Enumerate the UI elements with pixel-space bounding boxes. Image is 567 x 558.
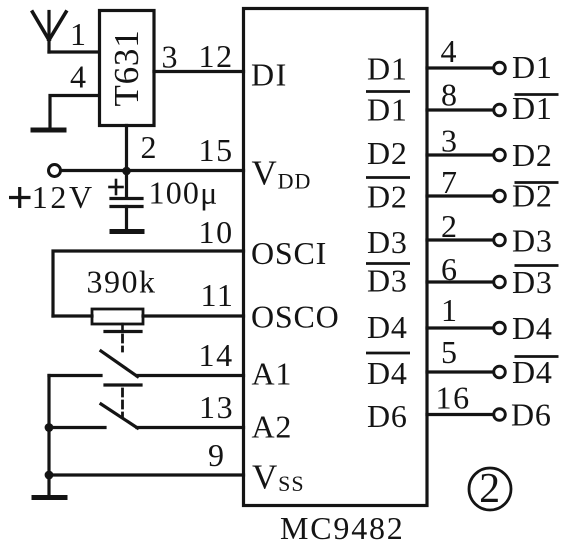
svg-text:A2: A2 xyxy=(252,409,293,445)
terminal circle D4bar xyxy=(494,366,506,378)
svg-text:100μ: 100μ xyxy=(149,175,219,211)
svg-text:4: 4 xyxy=(441,33,458,69)
svg-text:13: 13 xyxy=(199,389,234,425)
svg-text:D2: D2 xyxy=(512,137,553,173)
wire D1bar pin8 out xyxy=(427,108,494,111)
svg-text:1: 1 xyxy=(441,292,458,328)
svg-text:D3: D3 xyxy=(512,264,553,300)
resistor R1 390k body xyxy=(92,309,143,324)
svg-text:D1: D1 xyxy=(367,51,408,87)
svg-text:DI: DI xyxy=(251,57,288,93)
svg-text:390k: 390k xyxy=(87,264,157,300)
svg-text:7: 7 xyxy=(441,164,458,200)
svg-text:T631: T631 xyxy=(107,29,146,106)
wire D2 pin3 out xyxy=(427,153,494,156)
terminal circle D3bar xyxy=(494,276,506,288)
svg-text:MC9482: MC9482 xyxy=(280,510,405,546)
mechanical link dashed line A xyxy=(121,335,124,351)
svg-text:16: 16 xyxy=(436,380,471,416)
wire D6 pin16 out xyxy=(427,413,494,416)
svg-text:D4: D4 xyxy=(512,354,553,390)
terminal circle D2bar xyxy=(494,190,506,202)
terminal circle D2 xyxy=(494,149,506,161)
wire T631 pin3 to DI xyxy=(154,70,244,73)
svg-text:D6: D6 xyxy=(367,398,408,434)
overline inside D4bar xyxy=(366,352,410,355)
overline outside D4bar xyxy=(515,355,559,358)
receiver module T631 xyxy=(100,11,155,126)
svg-text:D6: D6 xyxy=(511,397,552,433)
wire +12V to VDD pin15 xyxy=(61,169,244,172)
svg-text:10: 10 xyxy=(199,214,234,250)
svg-text:8: 8 xyxy=(441,77,458,113)
svg-text:3: 3 xyxy=(162,39,179,75)
svg-text:D2: D2 xyxy=(367,135,408,171)
wire OSCI loop xyxy=(53,251,244,316)
mechanical link bar A xyxy=(105,330,141,333)
ground bar (T631 pin4) xyxy=(33,128,64,133)
wire VSS pin9 xyxy=(49,473,244,476)
svg-text:D4: D4 xyxy=(367,355,408,391)
svg-text:14: 14 xyxy=(199,337,234,373)
svg-text:D4: D4 xyxy=(512,310,553,346)
terminal circle D4 xyxy=(494,322,506,334)
switch S1 arm xyxy=(101,351,138,377)
svg-text:11: 11 xyxy=(201,277,235,313)
svg-text:2: 2 xyxy=(141,129,158,165)
capacitor polarity plus sign xyxy=(110,180,123,194)
wire D2bar pin7 out xyxy=(427,194,494,197)
capacitor C1 100u plates xyxy=(111,199,142,232)
+12V terminal circle xyxy=(49,165,61,177)
svg-text:D1: D1 xyxy=(512,49,553,85)
svg-text:12V: 12V xyxy=(32,179,95,215)
IC U1 MC9482 body xyxy=(244,9,428,506)
figure number circle xyxy=(469,468,511,510)
svg-text:D4: D4 xyxy=(367,309,408,345)
wire antenna to T631 pin1 xyxy=(49,50,99,53)
svg-text:D2: D2 xyxy=(367,179,408,215)
ground rail vertical xyxy=(47,376,50,496)
overline outside D3bar xyxy=(515,264,559,267)
terminal circle D6 xyxy=(494,409,506,421)
wire OSCO left segment xyxy=(53,314,92,317)
svg-text:2: 2 xyxy=(479,466,501,512)
svg-text:D3: D3 xyxy=(367,224,408,260)
svg-text:A1: A1 xyxy=(252,356,293,392)
svg-text:15: 15 xyxy=(199,132,234,168)
svg-text:OSCI: OSCI xyxy=(251,235,327,271)
svg-text:D3: D3 xyxy=(367,263,408,299)
wire A2 pin13 xyxy=(137,426,244,429)
ground bar bottom xyxy=(34,495,65,500)
svg-text:6: 6 xyxy=(441,251,458,287)
switch S2 arm xyxy=(101,404,138,428)
svg-text:OSCO: OSCO xyxy=(251,299,340,335)
switch S1 left contact wire xyxy=(49,374,101,377)
overline outside D1bar xyxy=(515,93,559,96)
svg-text:D1: D1 xyxy=(367,92,408,128)
wire D4 pin1 out xyxy=(427,326,494,329)
svg-text:3: 3 xyxy=(441,123,458,159)
svg-text:1: 1 xyxy=(70,16,87,52)
wire D4bar pin5 out xyxy=(427,370,494,373)
overline inside D3bar xyxy=(366,262,410,265)
plus sign of +12V label xyxy=(9,196,31,199)
svg-text:5: 5 xyxy=(441,334,458,370)
overline outside D2bar xyxy=(515,181,559,184)
svg-text:D3: D3 xyxy=(512,223,553,259)
mechanical link bar B xyxy=(105,383,141,386)
terminal circle D1bar xyxy=(494,104,506,116)
wire D3 pin2 out xyxy=(427,238,494,241)
terminal circle D1 xyxy=(494,62,506,74)
wire T631 pin4 to ground xyxy=(50,96,99,129)
overline inside D2bar xyxy=(366,176,410,179)
wire D3bar pin6 out xyxy=(427,280,494,283)
svg-text:9: 9 xyxy=(208,437,225,473)
wire T631 pin2 down to VDD node xyxy=(125,126,128,199)
junction node VDD/C1 xyxy=(122,167,131,176)
svg-text:12: 12 xyxy=(199,38,234,74)
mechanical link stub under resistor xyxy=(121,324,124,330)
junction node A2/rail xyxy=(45,423,54,432)
antenna E1 xyxy=(33,12,67,53)
svg-text:2: 2 xyxy=(441,208,458,244)
wire OSCO right segment xyxy=(143,314,244,317)
terminal circle D3 xyxy=(494,234,506,246)
overline inside D1bar xyxy=(366,90,410,93)
svg-text:4: 4 xyxy=(70,59,87,95)
junction node VSS/rail xyxy=(45,471,54,480)
switch S2 left contact wire xyxy=(49,426,105,429)
wire A1 pin14 xyxy=(137,374,244,377)
mechanical link dashed line B xyxy=(121,389,124,416)
wire D1 pin4 out xyxy=(427,66,494,69)
